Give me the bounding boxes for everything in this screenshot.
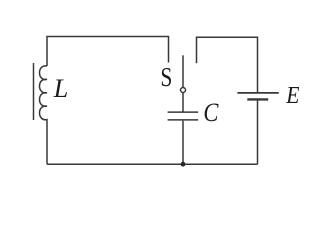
- wire capacitor top lead: [182, 93, 184, 112]
- inductor L coil: [40, 66, 48, 164]
- battery E short plate: [247, 98, 268, 100]
- capacitor C top plate: [168, 111, 199, 113]
- node junction dot: [181, 162, 186, 167]
- wire capacitor bottom lead: [182, 121, 184, 165]
- svg-text:L: L: [53, 74, 68, 103]
- inductor core bar: [33, 63, 35, 120]
- wire top-left segment with switch left stub: [47, 37, 169, 67]
- wire battery bottom lead: [257, 100, 259, 164]
- svg-text:C: C: [203, 98, 219, 127]
- svg-text:S: S: [160, 62, 172, 92]
- wire top-right segment with switch right stub: [197, 37, 258, 92]
- switch S blade: [182, 55, 184, 87]
- capacitor C bottom plate: [168, 119, 199, 121]
- wire bottom: [47, 163, 258, 165]
- battery E long plate: [237, 92, 278, 94]
- switch pivot circle: [181, 88, 186, 93]
- svg-text:E: E: [285, 83, 299, 109]
